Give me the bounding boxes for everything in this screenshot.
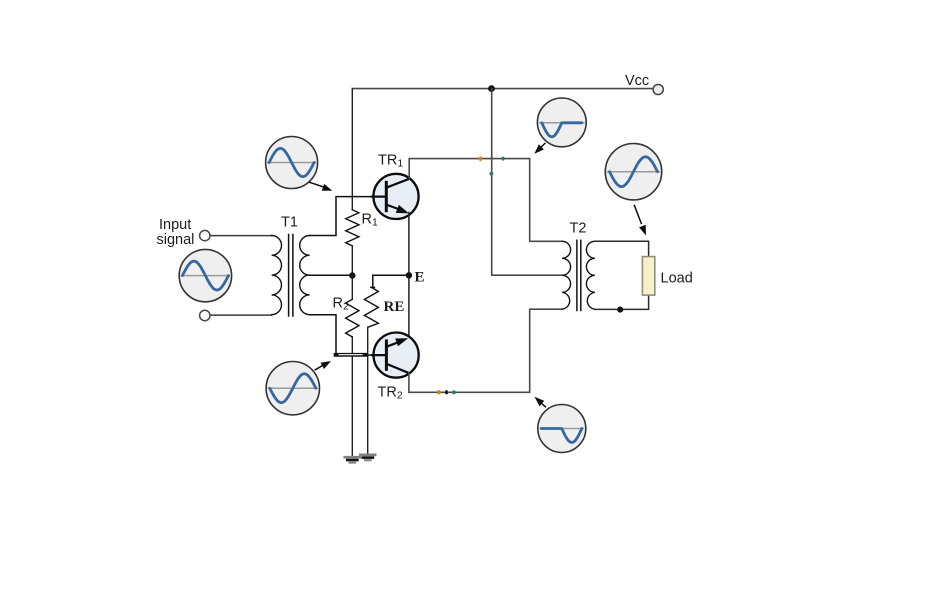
svg-text:Input: Input bbox=[159, 217, 191, 233]
wire Vcc top rail bbox=[352, 88, 653, 90]
load resistor bbox=[642, 257, 654, 296]
svg-text:R2: R2 bbox=[333, 296, 349, 313]
wire E to RE bbox=[371, 275, 406, 287]
transformer T2 core bbox=[577, 240, 581, 310]
transformer T1 primary winding bbox=[272, 236, 282, 315]
wire T1 secondary bottom down bbox=[310, 315, 336, 355]
wire TR1 collector to T2 primary top bbox=[409, 159, 562, 242]
wire Vcc feed to T2 center tap bbox=[492, 89, 562, 276]
marker dot orange on TR2 collector wire bbox=[437, 390, 441, 395]
wire R1 to junction node bbox=[351, 246, 353, 276]
marker dot green on Vcc feed bbox=[490, 172, 494, 176]
wire emitter bus TR1 to E to TR2 bbox=[408, 213, 410, 338]
node on load return wire bbox=[617, 307, 623, 313]
marker dot black on TR2 collector wire bbox=[445, 390, 448, 394]
resistor R1 bbox=[346, 210, 359, 246]
wire node to R2 bbox=[351, 276, 353, 300]
transistor TR2 bbox=[372, 333, 419, 378]
wire TR2 collector to T2 primary bottom bbox=[409, 309, 562, 392]
junction on Vcc rail bbox=[488, 85, 495, 92]
ground left (R2) bbox=[345, 457, 360, 462]
scope inverted sine at TR2 base bbox=[266, 362, 319, 415]
scope sine at TR1 base bbox=[266, 137, 318, 189]
resistor RE bbox=[364, 288, 378, 328]
wire T1 center tap to junction bbox=[310, 274, 350, 276]
terminal input bottom bbox=[200, 310, 210, 320]
marker dot green on collector wire bbox=[501, 157, 504, 161]
wire R1 branch from rail bbox=[351, 89, 353, 210]
label Input signal bbox=[157, 217, 195, 248]
arrow scope to load wire bbox=[634, 206, 646, 236]
wire T1 secondary top to TR1 base bbox=[310, 197, 376, 236]
svg-text:T2: T2 bbox=[570, 221, 587, 237]
wire bar to TR2 base bbox=[366, 354, 376, 356]
source input signal sine bbox=[179, 249, 231, 301]
wire T2 secondary top to load bbox=[595, 241, 649, 256]
svg-text:Load: Load bbox=[661, 271, 693, 287]
svg-text:signal: signal bbox=[157, 232, 195, 248]
arrow scope to TR1 collector corner bbox=[534, 143, 545, 154]
transformer T2 primary winding bbox=[562, 241, 571, 309]
arrow scope to TR2 collector corner bbox=[535, 397, 546, 407]
svg-text:Vcc: Vcc bbox=[625, 73, 649, 89]
svg-text:T1: T1 bbox=[281, 215, 298, 231]
wire input top bbox=[210, 235, 271, 237]
marker dot green on TR2 collector wire bbox=[452, 390, 455, 394]
terminal input top bbox=[200, 230, 210, 240]
wire T2 secondary bottom to load bbox=[595, 295, 649, 309]
arrow scope to TR2 base bar bbox=[315, 361, 331, 370]
transformer T1 secondary winding bbox=[300, 236, 310, 315]
wire input bottom bbox=[210, 314, 271, 316]
scope half-wave at TR2 collector bbox=[538, 405, 586, 453]
node E bbox=[406, 272, 412, 278]
svg-text:TR2: TR2 bbox=[378, 385, 403, 402]
svg-text:E: E bbox=[415, 270, 425, 286]
transformer T2 secondary winding bbox=[586, 241, 595, 309]
svg-text:RE: RE bbox=[384, 299, 405, 315]
scope output sine at load bbox=[605, 144, 661, 200]
scope half-wave at TR1 collector bbox=[537, 98, 586, 147]
wire R2 to ground bbox=[351, 337, 353, 456]
wire RE to ground bbox=[367, 327, 369, 454]
transformer T1 core bbox=[289, 235, 293, 317]
wire thick bar at TR2 base bbox=[336, 353, 366, 357]
ground right (RE) bbox=[360, 455, 375, 460]
marker dot orange on collector wire bbox=[479, 156, 482, 161]
node R1/R2/center-tap junction bbox=[349, 272, 355, 278]
svg-text:R1: R1 bbox=[362, 212, 378, 229]
svg-text:TR1: TR1 bbox=[378, 153, 403, 170]
resistor R2 bbox=[346, 299, 359, 337]
arrow scope to TR1 base wire bbox=[310, 182, 333, 190]
transistor TR1 bbox=[372, 174, 419, 219]
terminal Vcc bbox=[653, 84, 663, 94]
